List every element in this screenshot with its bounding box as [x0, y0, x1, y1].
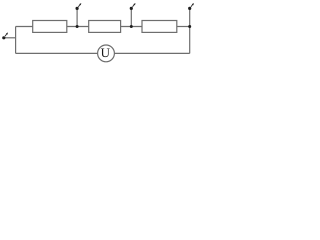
- wire bottom rail left of source: [16, 52, 98, 54]
- wire right rail with tap 3 riser: [189, 8, 191, 53]
- arrow tap 2: [133, 3, 136, 7]
- label U: [101, 48, 110, 57]
- wire tap 2 riser: [130, 8, 132, 26]
- node terminal dot left: [2, 36, 5, 39]
- wire left rail: [15, 27, 17, 54]
- voltage source U: [98, 45, 115, 62]
- node junction dot tap 2: [130, 25, 133, 28]
- wire top rail segment right: [177, 26, 190, 28]
- node junction dot tap 3: [188, 25, 191, 28]
- node terminal dot tap 2: [130, 7, 133, 10]
- arrow tap 1: [78, 3, 81, 7]
- resistor R2: [89, 21, 121, 33]
- wire top rail segment left: [16, 26, 33, 28]
- resistor R3: [142, 21, 177, 33]
- wire top rail segment between R1 and R2: [67, 26, 89, 28]
- node junction dot tap 1: [76, 25, 79, 28]
- wire left terminal lead: [4, 37, 16, 39]
- wire tap 1 riser: [76, 8, 78, 26]
- wire bottom rail right of source: [115, 52, 190, 54]
- node terminal dot tap 3: [188, 7, 191, 10]
- arrow left terminal: [5, 32, 8, 36]
- wire top rail segment between R2 and R3: [121, 26, 142, 28]
- resistor R1: [33, 21, 67, 33]
- arrow tap 3: [191, 3, 194, 7]
- node terminal dot tap 1: [76, 7, 79, 10]
